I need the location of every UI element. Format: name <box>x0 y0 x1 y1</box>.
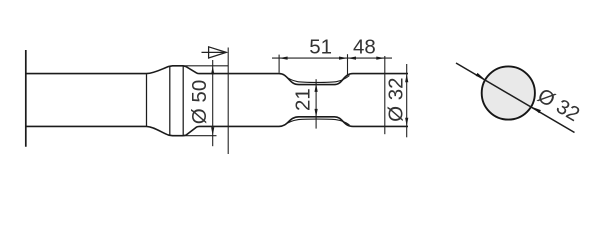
collar bottom edge extension line <box>184 135 217 137</box>
dia50 top arrowhead <box>211 66 214 74</box>
collar top edge extension line <box>184 65 228 67</box>
taper start edge line <box>146 74 148 126</box>
dia32 top arrowhead <box>405 74 408 83</box>
part outline bottom <box>26 117 408 136</box>
arrowhead 21 bottom <box>315 109 318 118</box>
horizontal dimension line 51-48 <box>272 57 392 59</box>
dia32 bottom arrowhead <box>405 118 408 127</box>
left end face line <box>25 50 27 147</box>
svg-text:Ø 32: Ø 32 <box>385 77 408 121</box>
dia50 bottom arrowhead <box>211 127 214 136</box>
arrowhead 51 right <box>339 57 348 60</box>
arrowhead 51 left <box>279 57 288 60</box>
arrowhead 48 right <box>376 57 385 60</box>
circle lower-right arrowhead <box>532 107 541 113</box>
diagonal diameter dimension line <box>456 63 575 133</box>
part outline top <box>26 66 408 85</box>
collar right edge line <box>182 66 184 135</box>
vertical extension line at collar <box>227 48 229 155</box>
taper symbol leader line <box>202 51 227 53</box>
taper symbol triangle <box>209 47 227 58</box>
svg-text:51: 51 <box>309 35 332 58</box>
section view circle <box>482 66 535 119</box>
neck lower fillet companion line <box>285 119 350 125</box>
dia50 dimension line <box>212 60 214 146</box>
circle upper-left arrowhead <box>476 73 485 79</box>
extension line between 51 and 48 <box>347 54 349 74</box>
arrowhead 48 left <box>348 57 357 60</box>
collar left edge line <box>169 66 171 135</box>
svg-text:21: 21 <box>292 88 315 111</box>
extension line left of 51 <box>278 55 280 73</box>
arrowhead 21 top <box>315 83 318 92</box>
dia32 dimension line (side view) <box>406 64 408 137</box>
neck upper fillet companion line <box>285 76 350 83</box>
svg-text:Ø 50: Ø 50 <box>188 80 211 124</box>
extension line right of 48 <box>384 56 386 134</box>
svg-text:48: 48 <box>353 35 376 58</box>
dimension line 21 <box>315 79 317 128</box>
